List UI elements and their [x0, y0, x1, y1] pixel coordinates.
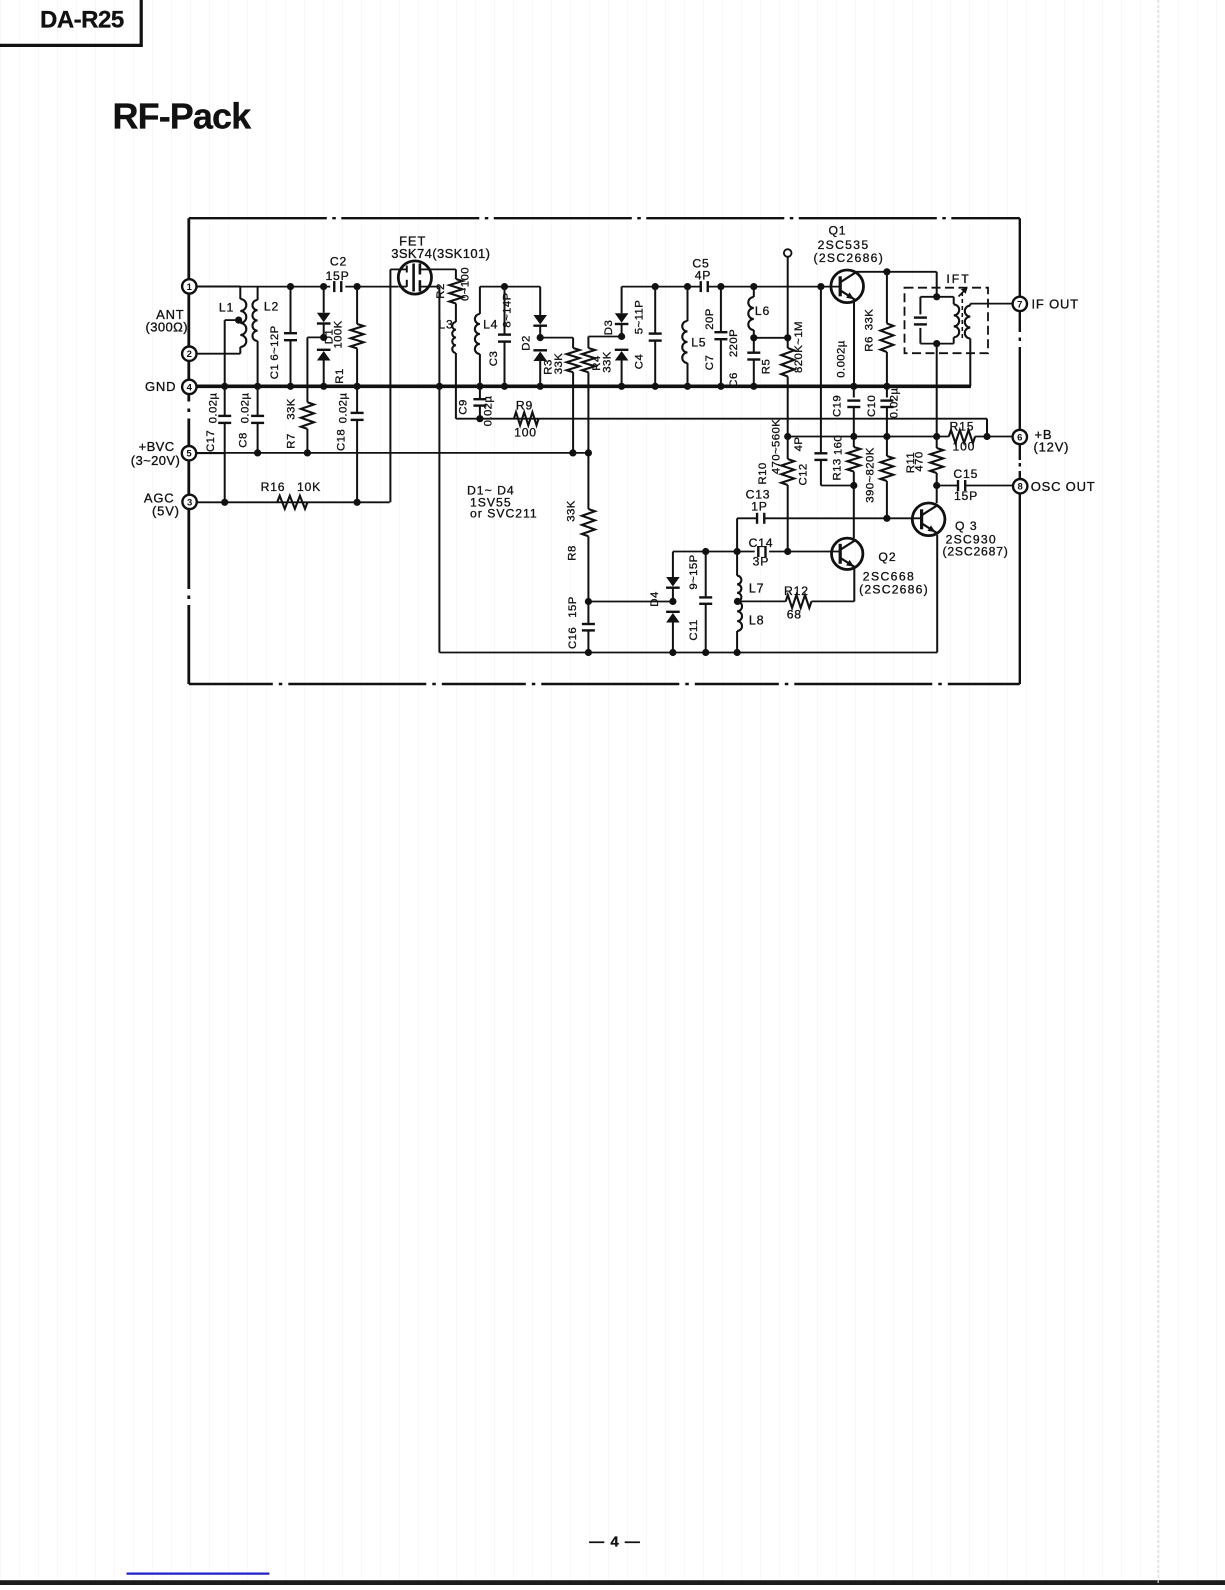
svg-text:6~12P: 6~12P — [269, 325, 281, 360]
svg-text:2SC668: 2SC668 — [863, 570, 915, 584]
svg-text:C15: C15 — [953, 467, 978, 481]
svg-text:5: 5 — [186, 449, 192, 460]
svg-text:RF-Pack: RF-Pack — [113, 96, 253, 137]
svg-text:3: 3 — [187, 497, 192, 508]
svg-text:1P: 1P — [751, 500, 768, 514]
svg-text:470: 470 — [914, 451, 926, 471]
svg-text:(5V): (5V) — [152, 503, 180, 518]
svg-text:C1: C1 — [269, 364, 281, 379]
svg-text:8~14P: 8~14P — [502, 292, 514, 327]
svg-text:33K: 33K — [286, 398, 298, 419]
svg-text:C16: C16 — [567, 627, 579, 649]
svg-text:0.02µ: 0.02µ — [483, 396, 495, 427]
svg-text:4P: 4P — [695, 269, 712, 283]
svg-text:7: 7 — [1017, 299, 1022, 310]
svg-text:C18: C18 — [336, 429, 348, 451]
svg-text:3SK74(3SK101): 3SK74(3SK101) — [391, 246, 490, 261]
svg-text:15P: 15P — [954, 489, 978, 503]
svg-text:(2SC2686): (2SC2686) — [859, 583, 929, 597]
svg-text:R2: R2 — [435, 283, 447, 298]
svg-text:Q2: Q2 — [878, 550, 896, 564]
svg-text:390~820K: 390~820K — [865, 447, 877, 502]
svg-text:8: 8 — [1018, 482, 1023, 493]
svg-text:L8: L8 — [749, 614, 765, 628]
svg-text:D2: D2 — [521, 335, 533, 350]
svg-text:L5: L5 — [691, 336, 706, 350]
svg-text:20P: 20P — [704, 308, 716, 329]
svg-text:— 4 —: — 4 — — [589, 1534, 641, 1551]
svg-text:(300Ω): (300Ω) — [146, 319, 188, 334]
svg-text:100: 100 — [514, 426, 537, 440]
svg-text:+BVC: +BVC — [139, 439, 175, 454]
svg-text:0~100: 0~100 — [460, 267, 472, 301]
svg-text:Q 3: Q 3 — [955, 519, 978, 533]
svg-text:2: 2 — [187, 349, 192, 360]
svg-text:(12V): (12V) — [1034, 440, 1070, 455]
svg-text:C6: C6 — [728, 372, 740, 387]
svg-text:C2: C2 — [330, 255, 347, 269]
svg-text:0.02µ: 0.02µ — [889, 388, 901, 419]
svg-text:9~15P: 9~15P — [688, 554, 700, 589]
svg-text:470~560K: 470~560K — [771, 419, 783, 474]
svg-text:10K: 10K — [297, 480, 321, 494]
svg-text:C19: C19 — [832, 395, 844, 417]
svg-text:OSC OUT: OSC OUT — [1031, 479, 1096, 494]
svg-text:L7: L7 — [749, 582, 765, 596]
svg-text:C4: C4 — [634, 354, 646, 369]
svg-text:L3: L3 — [438, 317, 453, 331]
svg-text:68: 68 — [787, 608, 802, 622]
svg-text:IF OUT: IF OUT — [1032, 297, 1079, 312]
svg-text:(2SC2687): (2SC2687) — [943, 545, 1009, 559]
svg-text:160: 160 — [833, 435, 845, 455]
svg-text:33K: 33K — [864, 309, 876, 330]
svg-text:15P: 15P — [567, 596, 579, 617]
svg-text:33K: 33K — [566, 500, 578, 521]
svg-text:R3: R3 — [543, 359, 555, 374]
svg-text:R12: R12 — [784, 584, 809, 598]
svg-text:220P: 220P — [728, 329, 740, 357]
svg-text:R10: R10 — [757, 462, 769, 484]
svg-text:Q1: Q1 — [828, 224, 846, 238]
svg-text:R1: R1 — [334, 368, 346, 383]
svg-text:3P: 3P — [753, 555, 770, 569]
svg-text:IFT: IFT — [946, 272, 970, 286]
svg-text:33K: 33K — [553, 353, 565, 374]
svg-text:GND: GND — [145, 379, 176, 394]
svg-text:2SC535: 2SC535 — [818, 238, 870, 252]
svg-text:R4: R4 — [591, 355, 603, 370]
svg-text:D3: D3 — [603, 320, 615, 335]
svg-text:or SVC211: or SVC211 — [470, 507, 538, 521]
svg-text:C17: C17 — [205, 430, 217, 452]
svg-text:100K: 100K — [333, 320, 345, 348]
svg-text:C8: C8 — [238, 432, 250, 447]
svg-text:C7: C7 — [704, 355, 716, 370]
svg-text:R9: R9 — [516, 399, 533, 413]
svg-text:L1: L1 — [219, 301, 234, 315]
svg-text:D4: D4 — [649, 591, 661, 606]
svg-text:R8: R8 — [567, 545, 579, 560]
svg-text:(3~20V): (3~20V) — [131, 453, 180, 468]
svg-text:DA-R25: DA-R25 — [40, 7, 124, 34]
svg-text:100: 100 — [953, 440, 976, 454]
svg-text:R5: R5 — [761, 359, 773, 374]
svg-text:R7: R7 — [286, 433, 298, 448]
svg-text:33K: 33K — [602, 351, 614, 372]
svg-text:820K~1M: 820K~1M — [793, 321, 805, 373]
svg-text:0.02µ: 0.02µ — [208, 393, 220, 424]
svg-text:15P: 15P — [325, 269, 349, 283]
svg-text:0.02µ: 0.02µ — [338, 393, 350, 424]
svg-text:0.02µ: 0.02µ — [240, 393, 252, 424]
svg-text:C9: C9 — [458, 399, 470, 414]
svg-text:R16: R16 — [261, 480, 286, 494]
svg-text:R6: R6 — [864, 336, 876, 351]
svg-text:4P: 4P — [793, 437, 805, 452]
svg-text:6: 6 — [1017, 432, 1022, 443]
svg-text:4: 4 — [187, 382, 193, 393]
svg-text:1: 1 — [187, 282, 193, 293]
svg-text:C11: C11 — [688, 619, 700, 640]
svg-text:C10: C10 — [866, 395, 878, 417]
svg-text:0.002µ: 0.002µ — [835, 340, 847, 378]
svg-text:R15: R15 — [950, 420, 975, 434]
svg-text:L4: L4 — [483, 317, 498, 331]
svg-text:L6: L6 — [755, 304, 770, 318]
svg-text:L2: L2 — [264, 300, 279, 314]
svg-text:C14: C14 — [749, 536, 774, 550]
svg-text:C3: C3 — [488, 351, 500, 366]
svg-text:(2SC2686): (2SC2686) — [813, 251, 884, 265]
svg-text:5~11P: 5~11P — [634, 300, 646, 334]
svg-text:R13: R13 — [832, 458, 844, 480]
svg-text:C12: C12 — [798, 463, 810, 485]
